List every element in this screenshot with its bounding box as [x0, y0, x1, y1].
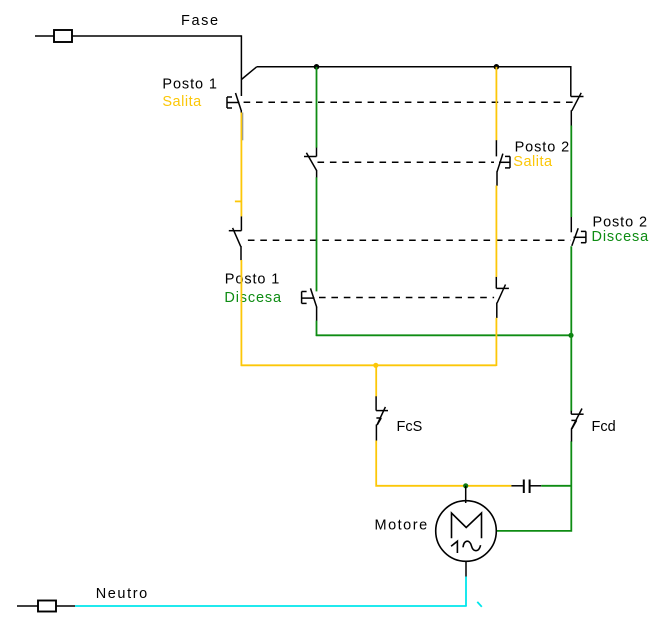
wire: right column green (row C to tee) — [570, 246, 572, 335]
motor M1 circle — [436, 501, 497, 562]
svg-text:Discesa: Discesa — [592, 229, 650, 245]
switch: Posto 1 Discesa NO pushbutton (row D, green column) — [302, 288, 317, 321]
wire: yellow drop to FcS — [375, 365, 377, 396]
wire: green column lower segment — [316, 321, 318, 336]
svg-text:Fase: Fase — [181, 13, 220, 29]
node: yellow junction dot — [373, 363, 378, 368]
wire: motor bottom stub — [465, 561, 467, 576]
wire: yellow stub tick — [235, 200, 242, 202]
dashed link row D — [319, 297, 494, 299]
wire: left column yellow segment — [240, 113, 242, 217]
node: bus junction to yellow column — [494, 64, 500, 70]
switch: NC contact row B left (green column) — [304, 148, 317, 178]
wire: neutral stub to cyan — [56, 605, 75, 607]
svg-text:Salita: Salita — [162, 94, 202, 110]
wire: neutral feed left stub — [17, 605, 38, 607]
switch: NC contact row A right (Posto 2 Discesa interlock) — [571, 66, 584, 126]
wire: green column upper segment — [316, 67, 318, 148]
svg-text:Posto 1: Posto 1 — [162, 76, 217, 92]
fuse F2 (neutral) — [38, 601, 56, 612]
svg-text:FcS: FcS — [397, 419, 423, 435]
switch: FcS limit switch (NC) — [376, 396, 388, 440]
svg-text:Fcd: Fcd — [592, 419, 616, 435]
svg-text:Salita: Salita — [513, 154, 553, 170]
wire: phase vertical drop to switch S1 — [240, 35, 242, 96]
wire: gray overlap segment below S1 — [242, 113, 244, 141]
wire: right column green (below row A NC) — [570, 126, 572, 218]
wire: yellow FcS to corner and capacitor row — [376, 441, 511, 486]
wire: phase feed left stub — [35, 35, 54, 37]
wire: diagonal branch to top bus — [241, 67, 256, 80]
svg-text:Neutro: Neutro — [96, 586, 149, 602]
motor sine wave — [463, 541, 481, 551]
svg-text:Posto 1: Posto 1 — [225, 271, 280, 287]
switch: Posto 2 Salita NO pushbutton (row B, yellow column) — [496, 140, 510, 186]
switch: NC contact row C left (yellow column) — [229, 216, 242, 260]
wire: right column green (Fcd to motor corner) — [496, 441, 571, 531]
svg-text:Motore: Motore — [375, 518, 429, 534]
node: green junction dot above motor — [463, 483, 468, 488]
wire: top bus — [257, 66, 571, 68]
wire: yellow horizontal run — [241, 364, 497, 366]
capacitor C1 plates — [524, 480, 530, 494]
switch: Posto 2 Discesa NO pushbutton (row C, right column) — [571, 217, 586, 246]
switch: Posto 1 Salita NO pushbutton (row A, left column) — [227, 93, 241, 113]
wire: yellow column lower — [495, 318, 497, 366]
dashed link row C — [248, 239, 571, 241]
motor M glyph — [452, 513, 482, 538]
svg-text:Discesa: Discesa — [224, 290, 282, 306]
node: green tee junction — [568, 333, 573, 338]
switch: NC contact row D right (yellow column) — [496, 277, 509, 318]
switch: Fcd limit switch (NC) — [571, 409, 583, 442]
dashed link row A — [244, 101, 576, 103]
wire: cyan stub diagonal — [477, 602, 482, 607]
wire: yellow column middle — [495, 186, 497, 277]
capacitor C1 right lead — [531, 485, 542, 487]
wire: green horizontal run — [316, 334, 572, 336]
dashed link row B — [318, 161, 495, 163]
node: bus junction to green column — [314, 64, 320, 70]
wire: cyan vertical from motor — [465, 577, 467, 607]
wire: phase horizontal to corner — [72, 35, 241, 37]
wire: green column middle segment — [316, 177, 318, 291]
wire: right column green (tee to Fcd) — [570, 335, 572, 411]
wire: left column yellow lower segment — [240, 260, 242, 366]
wire: yellow column upper (bus to row B switch) — [495, 67, 497, 140]
wire: cyan neutral run — [75, 605, 467, 607]
wire: black stub to motor top — [465, 486, 467, 503]
fuse F1 (phase) — [54, 30, 72, 42]
capacitor C1 left lead — [511, 485, 523, 487]
motor digit 1 — [451, 541, 457, 553]
wire: green capacitor to right column — [541, 485, 571, 487]
